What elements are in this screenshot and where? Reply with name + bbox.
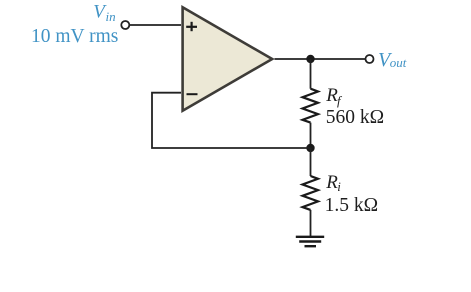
svg-text:10 mV rms: 10 mV rms	[31, 26, 118, 47]
svg-text:560 kΩ: 560 kΩ	[326, 107, 384, 128]
pin + (noninverting input)	[186, 22, 197, 31]
svg-text:in: in	[106, 9, 116, 24]
label Rf	[325, 85, 343, 108]
svg-text:out: out	[390, 55, 407, 70]
label Vin	[93, 2, 115, 25]
wire output	[275, 58, 366, 60]
wire feedback to inverting input	[152, 93, 311, 148]
resistor Rf	[303, 89, 319, 123]
svg-text:1.5 kΩ: 1.5 kΩ	[325, 195, 379, 216]
resistor Ri	[303, 176, 319, 210]
wire node to Ri	[310, 148, 312, 176]
label Ri	[325, 172, 341, 194]
wire Ri to ground	[310, 210, 312, 236]
wire input to op-amp	[130, 24, 181, 26]
op-amp U1	[183, 7, 273, 110]
wire node to Rf	[310, 59, 312, 89]
ground	[296, 237, 324, 246]
wire Rf to feedback node	[310, 123, 312, 148]
svg-text:i: i	[337, 179, 341, 194]
node feedback junction	[306, 144, 314, 152]
label Vout	[378, 49, 407, 71]
pin - (inverting input)	[187, 93, 198, 95]
output terminal	[366, 55, 374, 63]
node output junction	[306, 55, 314, 63]
input terminal	[121, 21, 129, 29]
